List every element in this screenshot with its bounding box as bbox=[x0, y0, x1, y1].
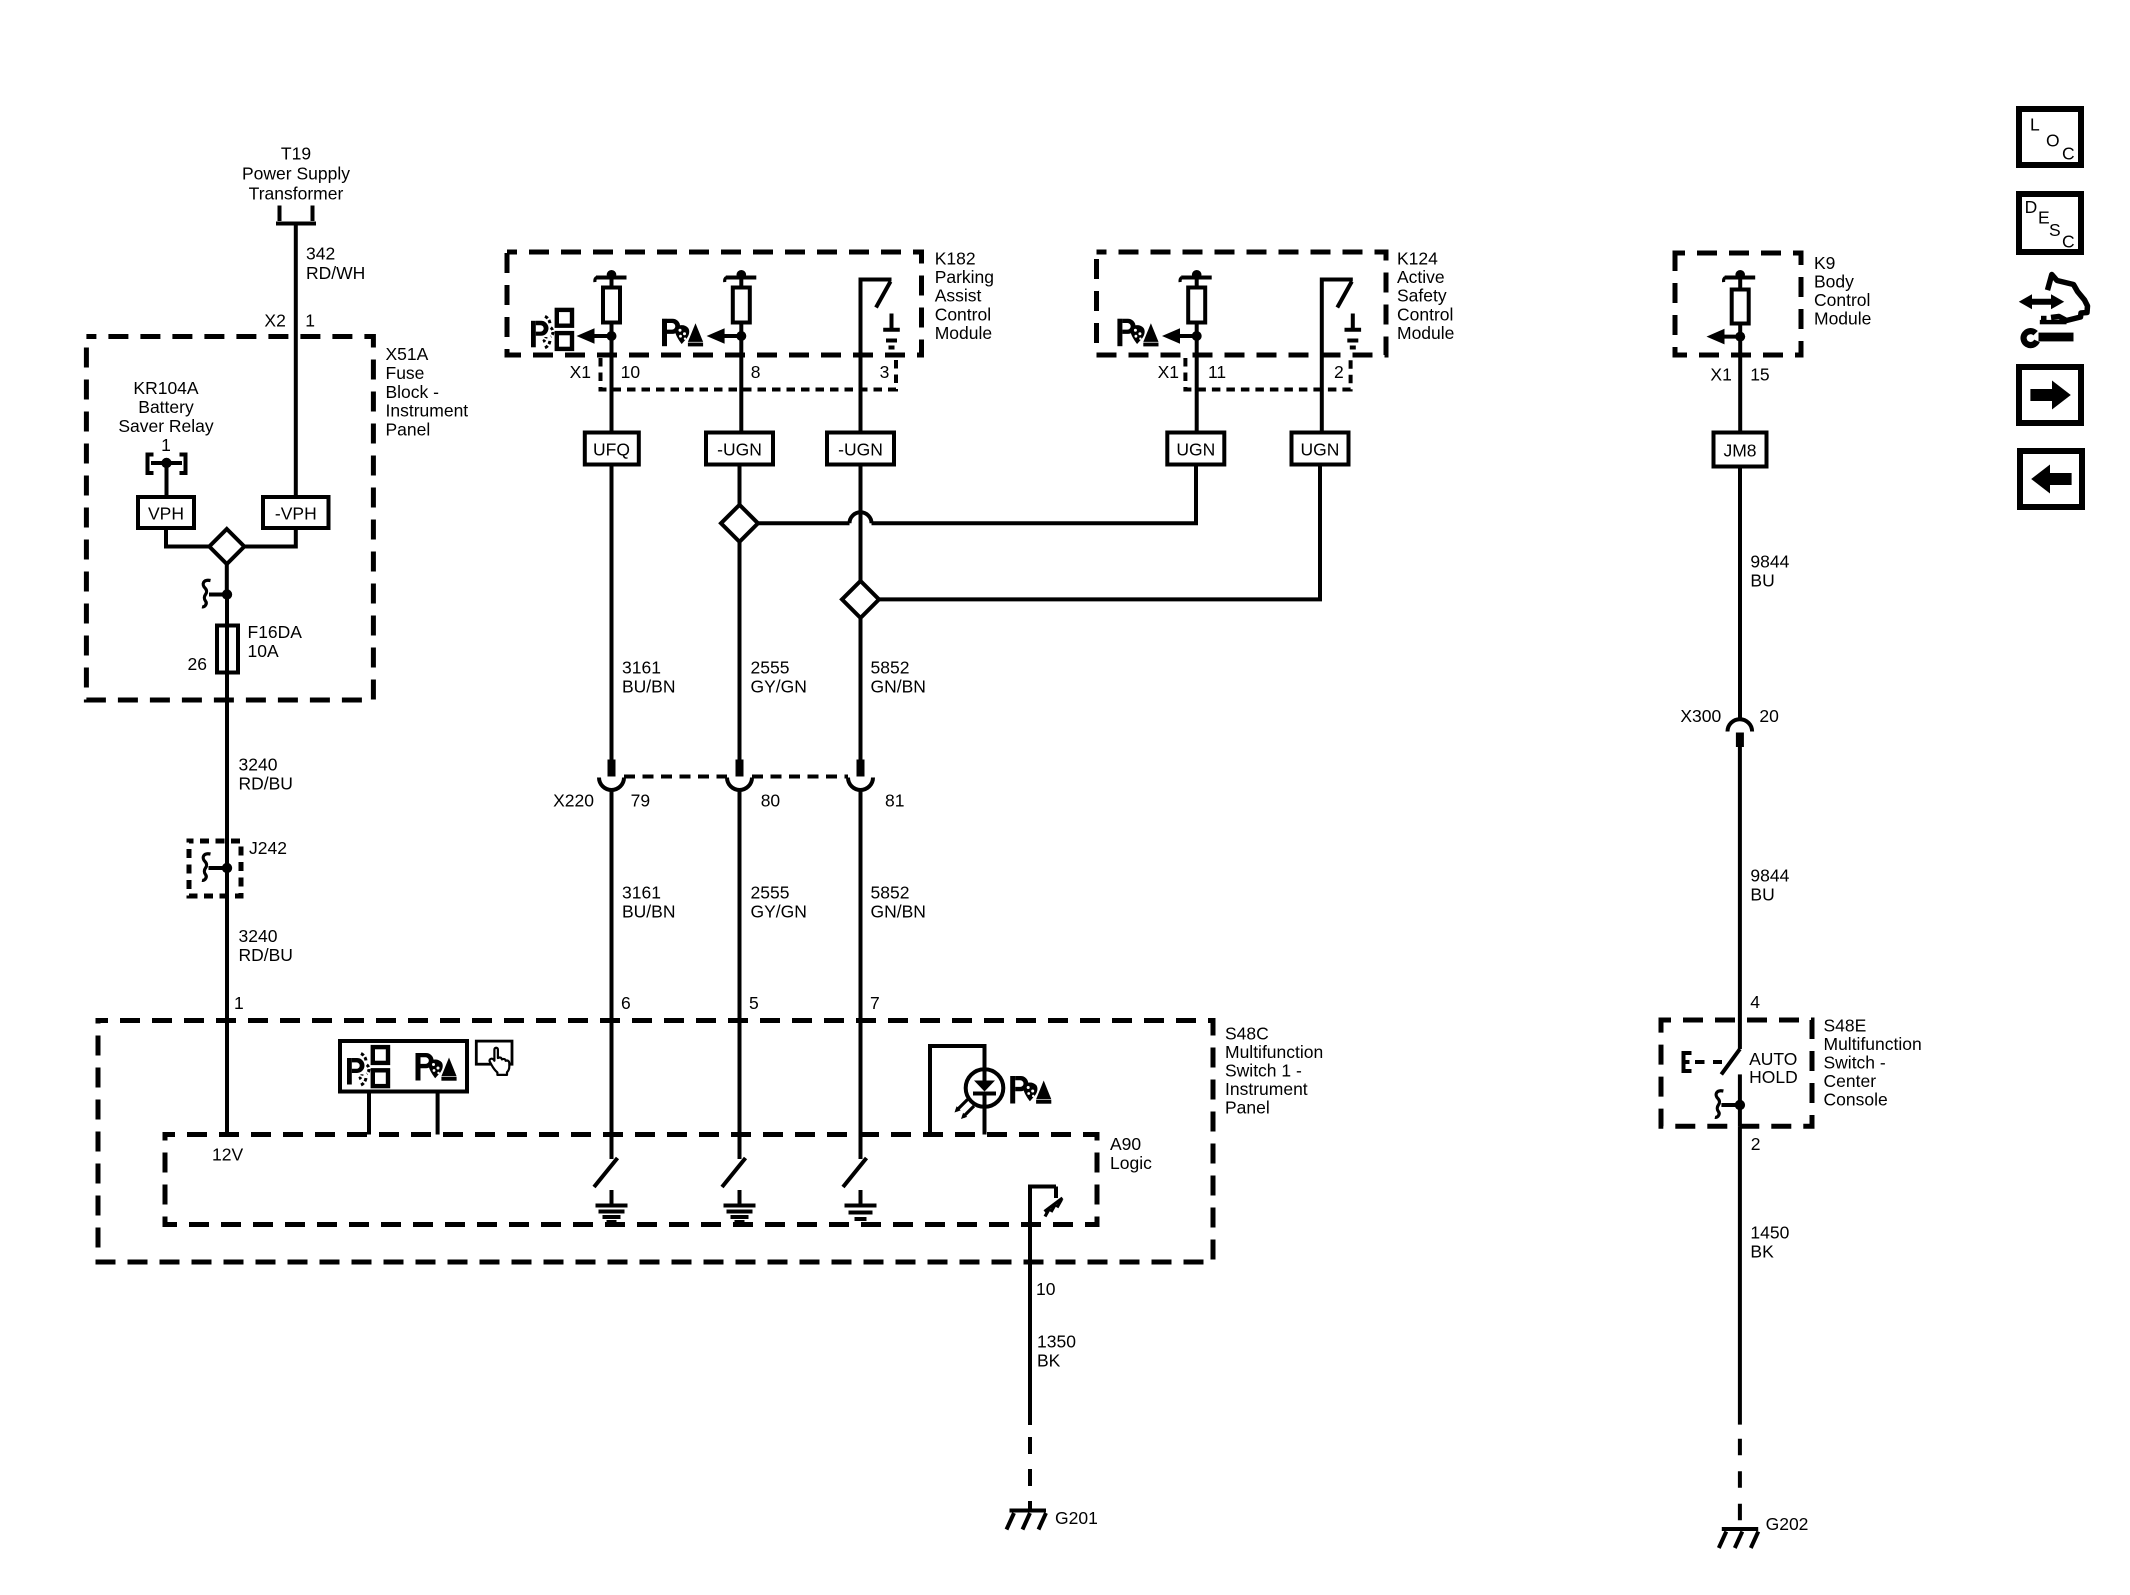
junction diamond wire 5852 bbox=[842, 581, 879, 618]
svg-text:5852: 5852 bbox=[871, 883, 910, 903]
relay contact KR104A bbox=[148, 455, 186, 474]
svg-text:KR104A: KR104A bbox=[133, 378, 199, 398]
svg-text:BU: BU bbox=[1750, 571, 1774, 591]
svg-text:2555: 2555 bbox=[751, 658, 790, 678]
svg-text:81: 81 bbox=[885, 791, 904, 811]
connector block X1 of K124 dotted outline bbox=[1185, 358, 1350, 390]
svg-text:Transformer: Transformer bbox=[249, 184, 344, 204]
wire switch to fuse bbox=[225, 595, 229, 626]
wire diamond to switch bbox=[225, 564, 229, 595]
svg-text:5852: 5852 bbox=[871, 658, 910, 678]
pin 2 label bbox=[1751, 1134, 1761, 1154]
wire K182 pin 3 to -UGN bbox=[859, 355, 863, 433]
label fuse F16DA 10A bbox=[248, 622, 303, 661]
label J242 bbox=[249, 838, 287, 858]
svg-text:3240: 3240 bbox=[239, 755, 278, 775]
svg-text:Module: Module bbox=[1397, 323, 1454, 343]
wire K182 pin 8 to -UGN bbox=[739, 336, 743, 433]
svg-text:12V: 12V bbox=[212, 1145, 243, 1165]
dashed linkage line X220 bbox=[624, 775, 848, 779]
svg-text:Control: Control bbox=[1814, 290, 1870, 310]
svg-text:X2: X2 bbox=[264, 311, 285, 331]
svg-text:S48E: S48E bbox=[1824, 1015, 1867, 1035]
svg-text:UGN: UGN bbox=[1176, 440, 1215, 460]
svg-text:3240: 3240 bbox=[239, 926, 278, 946]
label wire 3161 BU/BN upper bbox=[622, 658, 675, 697]
svg-text:K182: K182 bbox=[935, 249, 976, 269]
svg-text:10A: 10A bbox=[248, 641, 279, 661]
label wire 342 RD/WH bbox=[306, 244, 365, 283]
label G201 bbox=[1055, 1508, 1098, 1528]
svg-text:2555: 2555 bbox=[751, 883, 790, 903]
svg-text:Center: Center bbox=[1824, 1071, 1877, 1091]
svg-text:Body: Body bbox=[1814, 272, 1854, 292]
logic block A90 dashed box bbox=[165, 1135, 1097, 1225]
svg-text:E: E bbox=[2038, 208, 2050, 228]
svg-text:RD/WH: RD/WH bbox=[306, 263, 365, 283]
net tag UGN (pin 2) bbox=[1292, 433, 1349, 465]
switch to ground inside A90 wire 5 bbox=[722, 1158, 756, 1222]
svg-text:X1: X1 bbox=[1158, 362, 1179, 382]
svg-text:HOLD: HOLD bbox=[1749, 1067, 1798, 1087]
wire X220 80 to S48C pin 5 bbox=[738, 790, 742, 1159]
label wire 9844 BU lower bbox=[1750, 866, 1789, 905]
resistor R in K182 pin 10 branch bbox=[595, 270, 627, 323]
svg-text:J242: J242 bbox=[249, 838, 287, 858]
wire K124 pin 2 to UGN bbox=[1320, 355, 1324, 433]
junction diamond bbox=[209, 529, 244, 564]
wire resistor to junction K9 bbox=[1738, 324, 1742, 337]
label wire 3240 RD/BU upper bbox=[239, 755, 293, 794]
wire 342 RD/WH from T19 to X51A pin 1 bbox=[294, 224, 298, 498]
ground G202 bbox=[1719, 1529, 1759, 1548]
ground G201 bbox=[1007, 1511, 1047, 1530]
svg-text:Logic: Logic bbox=[1110, 1153, 1152, 1173]
resistor R in K9 pin 15 branch bbox=[1724, 270, 1756, 324]
svg-text:Block -: Block - bbox=[386, 382, 440, 402]
wire resistor to pin 10 junction bbox=[610, 323, 614, 337]
resistor R in K124 pin 11 branch bbox=[1180, 270, 1212, 323]
svg-text:Parking: Parking bbox=[935, 267, 994, 287]
net tag JM8 bbox=[1714, 433, 1767, 467]
junction dot and arrow to parking sensor icon bbox=[577, 328, 617, 344]
icon button DESC bbox=[2019, 194, 2081, 252]
label K124 Active Safety Control Module bbox=[1397, 249, 1454, 343]
wire K182 pin 10 to UFQ bbox=[610, 336, 614, 433]
connector X220 pass-through pin 79 bbox=[599, 760, 624, 790]
actuator E with dashed linkage bbox=[1684, 1053, 1723, 1071]
module K124 dashed box bbox=[1097, 252, 1387, 355]
label S48E Multifunction Switch - Center Console bbox=[1824, 1015, 1922, 1109]
wire pin 10 to G201 bbox=[1028, 1262, 1032, 1510]
svg-text:1: 1 bbox=[234, 993, 244, 1013]
svg-text:Panel: Panel bbox=[1225, 1098, 1270, 1118]
net tag UFQ bbox=[585, 433, 639, 465]
connector X220 pass-through pin 81 bbox=[848, 760, 873, 790]
svg-text:26: 26 bbox=[188, 654, 207, 674]
label G202 bbox=[1766, 1514, 1809, 1534]
svg-text:342: 342 bbox=[306, 244, 335, 264]
svg-text:GY/GN: GY/GN bbox=[751, 677, 807, 697]
svg-text:Console: Console bbox=[1824, 1090, 1888, 1110]
icon parking assist P at LED bbox=[1010, 1076, 1051, 1104]
switch to ground in K124 pin 2 branch bbox=[1322, 280, 1361, 356]
svg-text:AUTO: AUTO bbox=[1749, 1049, 1797, 1069]
svg-text:Instrument: Instrument bbox=[386, 401, 469, 421]
svg-text:1350: 1350 bbox=[1037, 1332, 1076, 1352]
label wire 2555 GY/GN lower bbox=[751, 883, 807, 922]
svg-text:Control: Control bbox=[1397, 304, 1453, 324]
svg-text:GN/BN: GN/BN bbox=[871, 677, 926, 697]
wire X300 to S48E pin 4 bbox=[1738, 747, 1742, 1020]
svg-text:Fuse: Fuse bbox=[386, 363, 425, 383]
svg-text:79: 79 bbox=[631, 791, 650, 811]
wire -UGN pin3 down to diamond 2 bbox=[859, 465, 863, 581]
svg-text:GN/BN: GN/BN bbox=[871, 902, 926, 922]
transformer T19 bbox=[242, 144, 350, 224]
svg-text:RD/BU: RD/BU bbox=[239, 945, 293, 965]
junction dot and arrow to parking assist icon bbox=[707, 328, 747, 344]
switch contact (battery saver feed) bbox=[202, 580, 232, 607]
svg-text:BU/BN: BU/BN bbox=[622, 902, 675, 922]
svg-text:JM8: JM8 bbox=[1723, 441, 1756, 461]
svg-text:6: 6 bbox=[621, 993, 631, 1013]
icon vehicle service (arrows car wrench) bbox=[2019, 275, 2088, 346]
svg-text:Multifunction: Multifunction bbox=[1225, 1042, 1323, 1062]
icon button arrow right bbox=[2019, 367, 2081, 423]
svg-text:1450: 1450 bbox=[1750, 1223, 1789, 1243]
svg-text:Saver Relay: Saver Relay bbox=[118, 416, 214, 436]
pin 10 label bbox=[1036, 1279, 1056, 1299]
label wire 5852 GN/BN upper bbox=[871, 658, 926, 697]
icon parking sensor P in box bbox=[347, 1047, 388, 1086]
label wire 9844 BU upper bbox=[1750, 552, 1789, 591]
wire X220 81 to S48C pin 7 bbox=[859, 790, 863, 1159]
label K182 Parking Assist Control Module bbox=[935, 249, 994, 343]
net tag VPH bbox=[138, 497, 194, 528]
svg-text:Safety: Safety bbox=[1397, 286, 1447, 306]
svg-text:-UGN: -UGN bbox=[717, 440, 762, 460]
svg-text:X220: X220 bbox=[553, 791, 594, 811]
svg-text:Power Supply: Power Supply bbox=[242, 164, 350, 184]
svg-text:Control: Control bbox=[935, 304, 991, 324]
connector X220 pass-through pin 80 bbox=[727, 760, 752, 790]
svg-text:80: 80 bbox=[761, 791, 781, 811]
svg-text:5: 5 bbox=[749, 993, 759, 1013]
svg-text:Instrument: Instrument bbox=[1225, 1079, 1308, 1099]
net tag -UGN (pin 8) bbox=[706, 433, 773, 465]
svg-text:VPH: VPH bbox=[148, 504, 184, 524]
svg-text:X300: X300 bbox=[1680, 706, 1721, 726]
wire VPH to junction bbox=[166, 528, 209, 547]
pin 1 label S48C bbox=[234, 993, 244, 1013]
wire resistor to pin 8 junction bbox=[739, 323, 743, 337]
icon parking assist P in K182 bbox=[662, 319, 703, 347]
splice J242 dashed box bbox=[189, 841, 241, 896]
pin labels 6 5 7 bbox=[621, 993, 880, 1013]
svg-text:GY/GN: GY/GN bbox=[751, 902, 807, 922]
svg-text:Module: Module bbox=[1814, 309, 1871, 329]
net tag -VPH bbox=[263, 497, 329, 528]
svg-text:RD/BU: RD/BU bbox=[239, 774, 293, 794]
svg-text:L: L bbox=[2030, 115, 2040, 135]
LED indicator lamp bbox=[955, 1069, 1004, 1119]
label relay KR104A Battery Saver Relay pin 1 bbox=[118, 378, 214, 455]
svg-text:F16DA: F16DA bbox=[248, 622, 303, 642]
svg-text:X1: X1 bbox=[1710, 365, 1731, 385]
svg-text:A90: A90 bbox=[1110, 1134, 1141, 1154]
junction dot and arrow to icon K124 bbox=[1162, 328, 1202, 344]
pin 4 label bbox=[1750, 992, 1760, 1012]
wire 3240 RD/BU fuse to S48C pin 1 bbox=[225, 673, 229, 1021]
svg-text:Switch -: Switch - bbox=[1824, 1052, 1886, 1072]
svg-text:1: 1 bbox=[305, 311, 315, 331]
fuse block X51A dashed box bbox=[86, 337, 373, 701]
wire -UGN pin8 down to diamond junction bbox=[738, 465, 742, 505]
svg-text:1: 1 bbox=[161, 435, 171, 455]
wire relay to VPH bbox=[165, 463, 169, 497]
svg-text:K9: K9 bbox=[1814, 253, 1835, 273]
pin labels X1 10 8 3 bbox=[570, 362, 890, 382]
wire K124 pin 11 to UGN bbox=[1195, 336, 1199, 433]
wire pin 1 to A90 bbox=[225, 1021, 229, 1135]
switch to ground inside A90 wire 6 bbox=[594, 1158, 628, 1222]
svg-text:O: O bbox=[2046, 130, 2060, 150]
svg-text:BK: BK bbox=[1750, 1242, 1774, 1262]
svg-text:11: 11 bbox=[1208, 362, 1226, 382]
label wire 2555 GY/GN upper bbox=[751, 658, 807, 697]
splice J242 symbol bbox=[202, 854, 232, 881]
svg-text:BU: BU bbox=[1750, 885, 1774, 905]
svg-text:3161: 3161 bbox=[622, 883, 661, 903]
label X51A Fuse Block - Instrument Panel bbox=[386, 344, 469, 440]
connector X2 pin 1 labels bbox=[264, 311, 315, 331]
label wire 3161 BU/BN lower bbox=[622, 883, 675, 922]
resistor R in K182 pin 8 branch bbox=[725, 270, 757, 323]
svg-text:G201: G201 bbox=[1055, 1508, 1098, 1528]
label A90 Logic bbox=[1110, 1134, 1152, 1173]
switch S48E dashed box bbox=[1661, 1020, 1812, 1126]
icon parking assist P in K124 bbox=[1117, 319, 1158, 347]
svg-text:Multifunction: Multifunction bbox=[1824, 1034, 1922, 1054]
svg-text:20: 20 bbox=[1759, 706, 1779, 726]
icon parking assist P in box bbox=[416, 1053, 457, 1081]
LED indicator branch wire bbox=[930, 1046, 985, 1135]
labels X220 79 80 81 bbox=[553, 791, 904, 811]
svg-text:G202: G202 bbox=[1766, 1514, 1809, 1534]
chassis ground symbol in A90 bbox=[1045, 1187, 1063, 1217]
svg-text:K124: K124 bbox=[1397, 249, 1438, 269]
label wire 1350 BK bbox=[1037, 1332, 1076, 1371]
label 12V bbox=[212, 1145, 243, 1165]
svg-text:S48C: S48C bbox=[1225, 1024, 1269, 1044]
pin 26 label bbox=[188, 654, 207, 674]
svg-text:8: 8 bbox=[751, 362, 761, 382]
horizontal wire diamond to K124 UGN pin 11 with hop bbox=[758, 465, 1196, 524]
icon button arrow left bbox=[2020, 451, 2082, 507]
icon box stems bbox=[369, 1092, 438, 1135]
svg-text:10: 10 bbox=[621, 362, 641, 382]
svg-text:T19: T19 bbox=[281, 144, 311, 164]
svg-text:D: D bbox=[2025, 197, 2038, 217]
svg-text:BK: BK bbox=[1037, 1351, 1061, 1371]
svg-text:2: 2 bbox=[1751, 1134, 1761, 1154]
svg-text:C: C bbox=[2062, 143, 2075, 163]
svg-text:4: 4 bbox=[1750, 992, 1760, 1012]
splice contact in S48E bbox=[1715, 1091, 1745, 1118]
svg-text:3: 3 bbox=[880, 362, 890, 382]
wire UFQ down to X220 pin 79 bbox=[610, 465, 614, 760]
svg-text:Active: Active bbox=[1397, 267, 1445, 287]
switch to ground inside A90 wire 7 bbox=[843, 1158, 877, 1219]
button cursor icon bbox=[476, 1041, 512, 1075]
switch module S48C dashed box bbox=[98, 1021, 1213, 1263]
junction dot and arrow K9 bbox=[1707, 329, 1746, 345]
junction diamond wire 2555 bbox=[721, 505, 758, 542]
svg-text:-UGN: -UGN bbox=[838, 440, 883, 460]
svg-text:BU/BN: BU/BN bbox=[622, 677, 675, 697]
svg-text:Assist: Assist bbox=[935, 286, 982, 306]
connector X300 pass-through pin 20 bbox=[1728, 719, 1753, 747]
pin labels X1 15 bbox=[1710, 365, 1769, 385]
horizontal wire diamond 2 to K124 UGN pin 2 bbox=[879, 465, 1320, 600]
label wire 5852 GN/BN lower bbox=[871, 883, 926, 922]
wire K9 pin 15 to JM8 bbox=[1738, 337, 1742, 433]
wire diamond 2 below to X220 pin 81 bbox=[859, 618, 863, 760]
wire diamond below to X220 pin 80 bbox=[738, 542, 742, 760]
svg-text:UFQ: UFQ bbox=[593, 440, 630, 460]
fuse F16DA 10A bbox=[217, 626, 238, 673]
label K9 Body Control Module bbox=[1814, 253, 1871, 329]
svg-text:15: 15 bbox=[1750, 365, 1769, 385]
svg-text:C: C bbox=[2062, 231, 2075, 251]
pin labels X1 11 2 bbox=[1158, 362, 1344, 382]
svg-text:3161: 3161 bbox=[622, 658, 661, 678]
connector block X1 of K182 dotted outline bbox=[601, 358, 897, 390]
svg-text:S: S bbox=[2049, 220, 2061, 240]
wire JM8 to X300 bbox=[1738, 467, 1742, 720]
svg-text:Switch 1 -: Switch 1 - bbox=[1225, 1061, 1302, 1081]
svg-text:X51A: X51A bbox=[386, 344, 429, 364]
wire resistor to pin 11 junction bbox=[1195, 323, 1199, 337]
svg-text:Panel: Panel bbox=[386, 420, 431, 440]
net tag -UGN (pin 3) bbox=[827, 433, 894, 465]
wire -VPH to junction bbox=[244, 528, 295, 547]
icon button LOC bbox=[2019, 109, 2081, 165]
svg-text:Module: Module bbox=[935, 323, 992, 343]
svg-text:Battery: Battery bbox=[138, 397, 194, 417]
wire pin 2 to G202 bbox=[1738, 1126, 1742, 1528]
svg-text:2: 2 bbox=[1334, 362, 1344, 382]
label wire 3240 RD/BU lower bbox=[239, 926, 293, 965]
labels X300 20 bbox=[1680, 706, 1779, 726]
svg-text:-VPH: -VPH bbox=[275, 504, 317, 524]
net tag UGN (pin 11) bbox=[1167, 433, 1224, 465]
svg-text:9844: 9844 bbox=[1750, 552, 1789, 572]
module K9 dashed box bbox=[1675, 253, 1801, 355]
display icon box in S48C bbox=[340, 1041, 467, 1092]
svg-text:9844: 9844 bbox=[1750, 866, 1789, 886]
label S48C Multifunction Switch 1 - Instrument Panel bbox=[1225, 1024, 1323, 1118]
label AUTO HOLD bbox=[1749, 1049, 1798, 1087]
wire S48E pin 2 down bbox=[1738, 1105, 1742, 1126]
module K182 dashed box bbox=[507, 252, 922, 355]
svg-text:7: 7 bbox=[870, 993, 880, 1013]
switch to ground in K182 pin 3 branch bbox=[861, 280, 900, 356]
label wire 1450 BK bbox=[1750, 1223, 1789, 1262]
icon parking sensor P in K182 bbox=[531, 310, 572, 349]
svg-text:UGN: UGN bbox=[1301, 440, 1340, 460]
wire X220 79 to S48C pin 6 bbox=[610, 790, 614, 1159]
svg-text:X1: X1 bbox=[570, 362, 591, 382]
svg-text:10: 10 bbox=[1036, 1279, 1056, 1299]
switch blade S48E bbox=[1721, 1020, 1740, 1105]
wire A90 internal ground to pin 10 bbox=[1030, 1187, 1056, 1263]
